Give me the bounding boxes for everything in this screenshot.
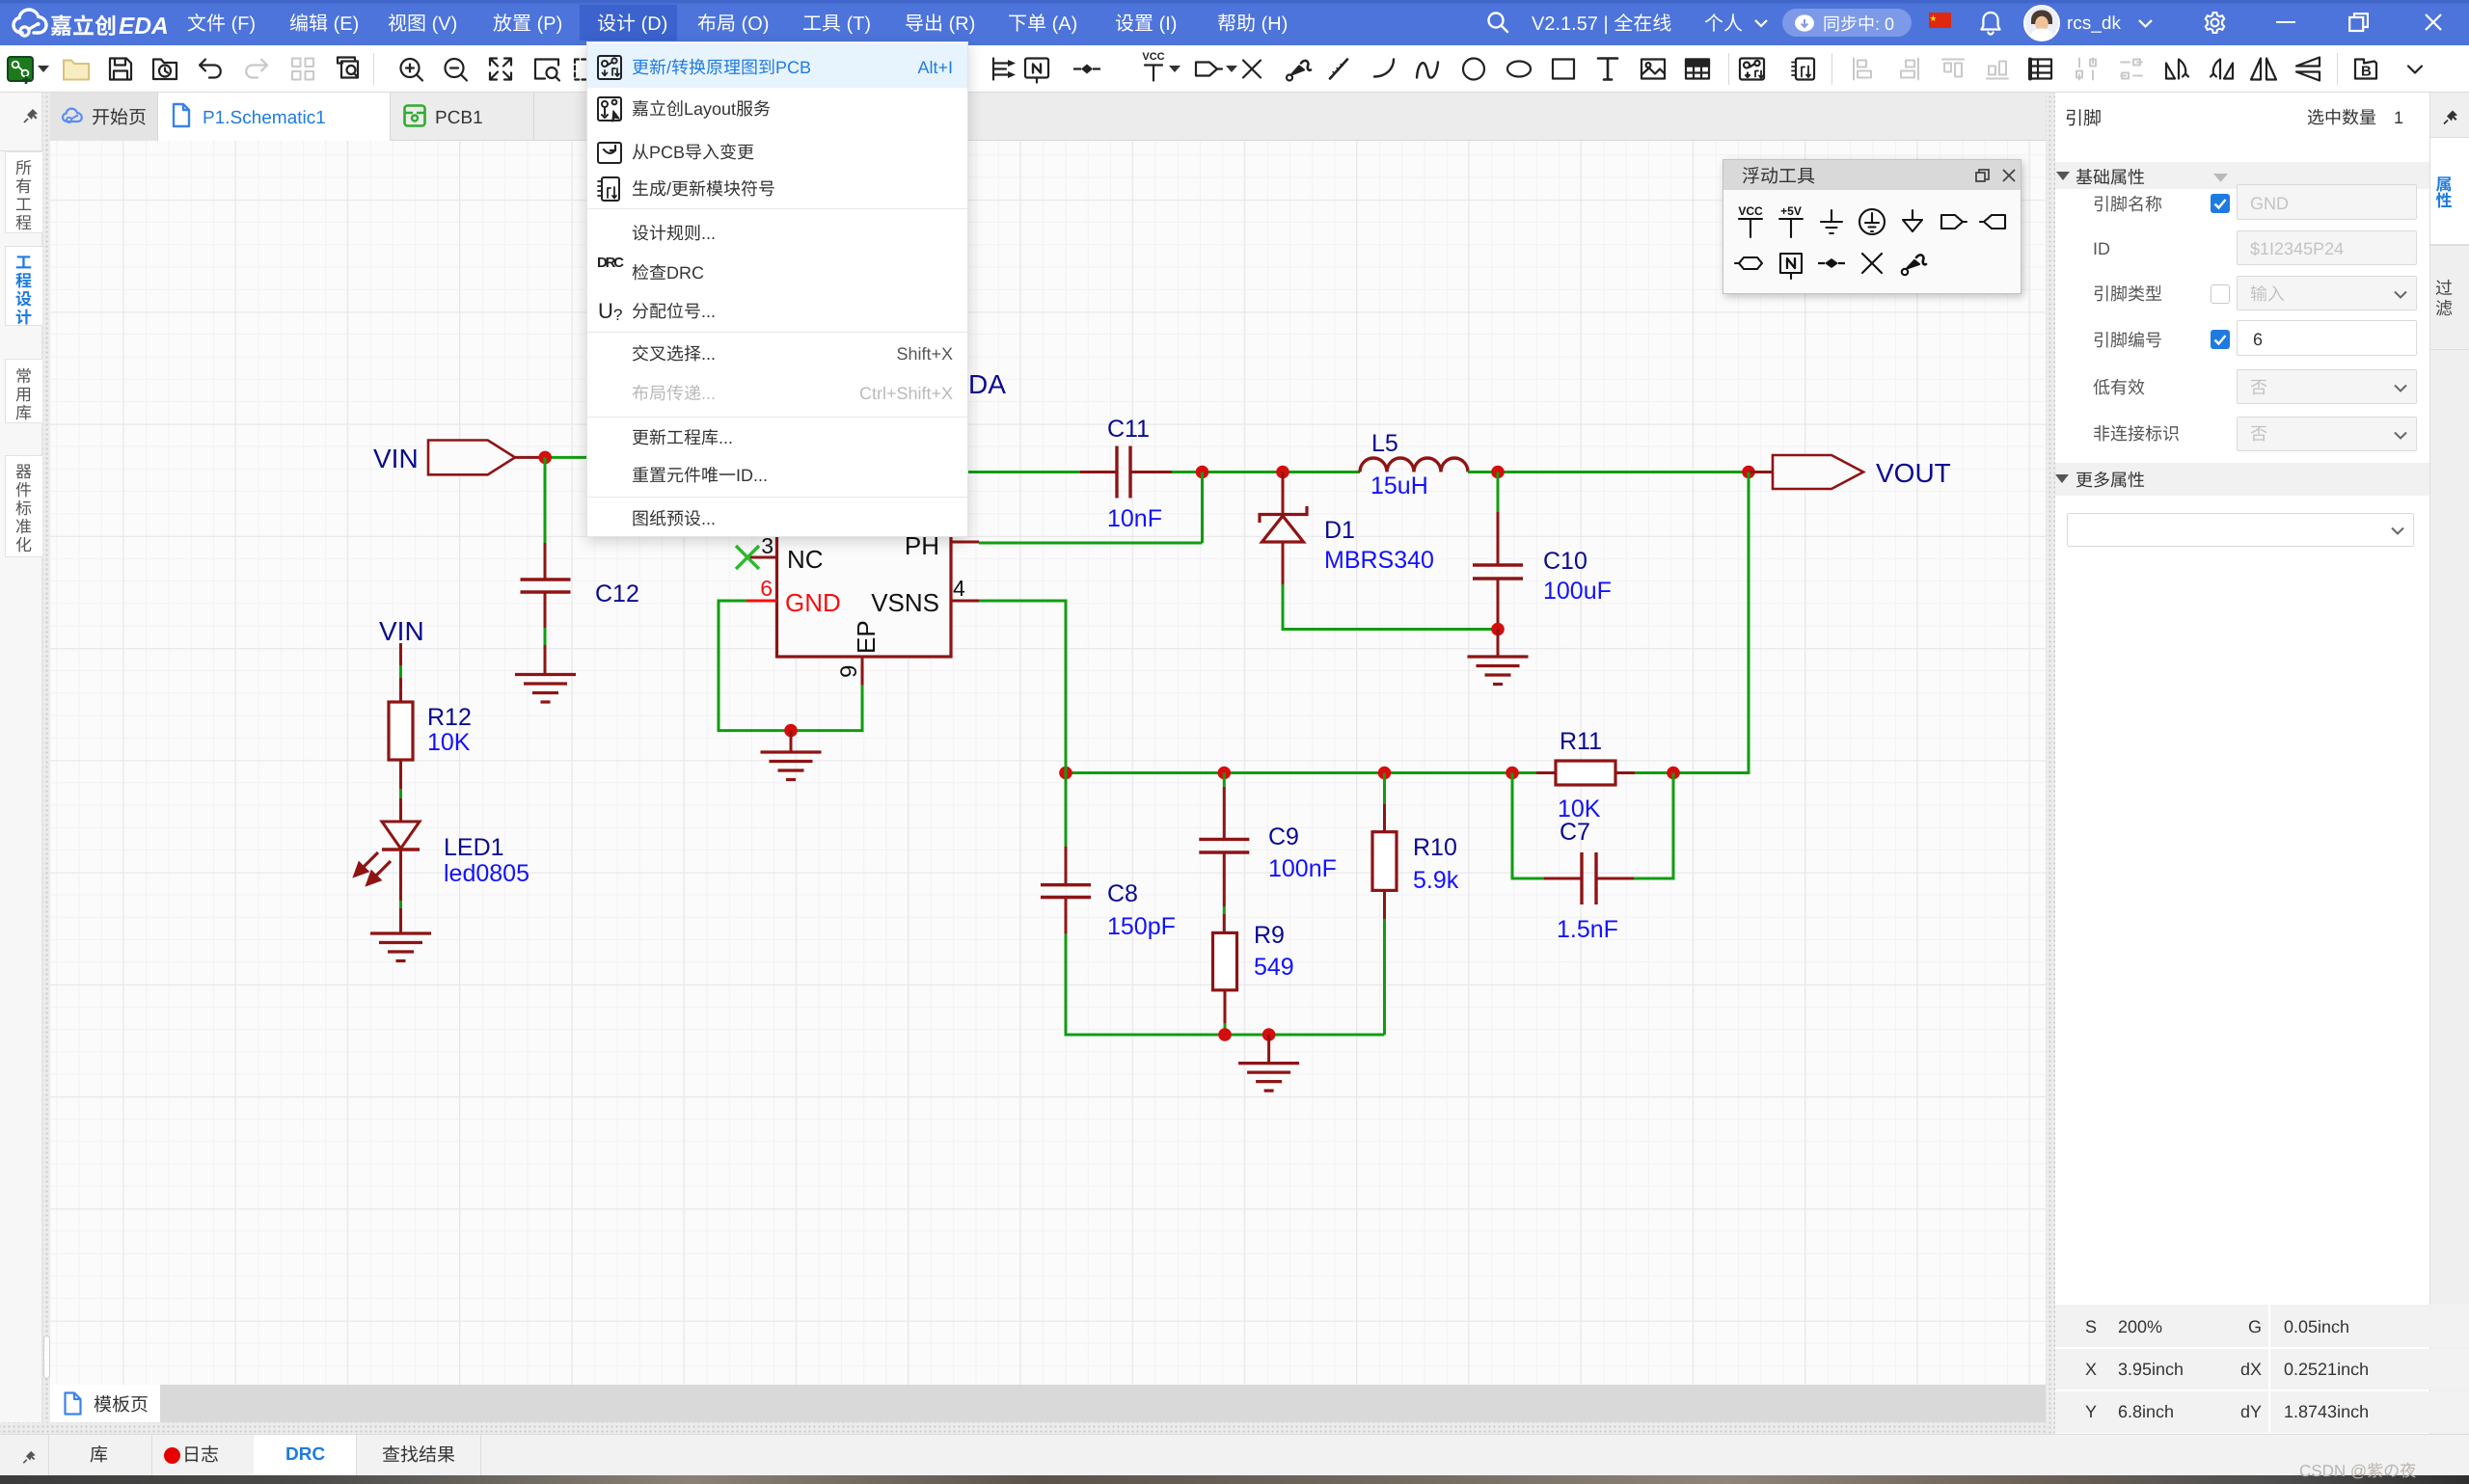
feedback bus wire xyxy=(1066,771,1536,774)
svg-text:DRC: DRC xyxy=(597,255,624,271)
svg-text:L5: L5 xyxy=(1371,430,1398,457)
svg-text:VIN: VIN xyxy=(379,616,424,646)
capacitor C8 branch xyxy=(1065,773,1068,847)
wire VSNS to bus xyxy=(979,601,1066,773)
port VIN xyxy=(428,441,515,475)
svg-text:C9: C9 xyxy=(1268,823,1299,850)
junction PH node xyxy=(1196,466,1209,479)
pin 4 VSNS xyxy=(951,600,979,603)
port VOUT xyxy=(1749,471,1773,473)
junction VOUT xyxy=(1742,466,1755,479)
junction C10 xyxy=(1491,466,1505,479)
ground bottom xyxy=(1238,1062,1299,1065)
svg-text:C10: C10 xyxy=(1543,548,1587,575)
junction VIN xyxy=(538,451,552,465)
bottom bus junctions xyxy=(1218,1028,1232,1041)
pin 6 GND (selected) xyxy=(746,600,777,603)
capacitor C9 xyxy=(1223,773,1226,787)
resistor R9 xyxy=(1213,932,1237,989)
ground under C12 xyxy=(515,673,576,676)
wire VIN down to C12 xyxy=(544,457,547,543)
svg-text:C12: C12 xyxy=(595,580,639,607)
capacitor C7 xyxy=(1512,773,1544,879)
wire C10 ground lead xyxy=(1497,630,1500,658)
svg-text:led0805: led0805 xyxy=(444,860,529,887)
svg-text:1.5nF: 1.5nF xyxy=(1557,916,1618,943)
ground under LED1 xyxy=(370,931,431,934)
svg-text:R9: R9 xyxy=(1254,922,1285,949)
junction EP ground xyxy=(784,724,798,738)
LED LED1 xyxy=(382,822,420,849)
IC body xyxy=(777,444,952,657)
svg-text:10K: 10K xyxy=(427,729,471,756)
wire GND pin to ground loop xyxy=(719,601,862,731)
svg-text:VOUT: VOUT xyxy=(1876,458,1951,488)
svg-text:100uF: 100uF xyxy=(1543,578,1612,605)
resistor R11 xyxy=(1536,771,1556,774)
svg-text:GND: GND xyxy=(785,588,841,617)
svg-text:9: 9 xyxy=(836,665,862,678)
wire LED1 to ground xyxy=(399,850,402,901)
wire EP ground lead xyxy=(790,731,793,752)
svg-text:MBRS340: MBRS340 xyxy=(1324,547,1434,574)
wire L5 to VOUT xyxy=(1468,471,1749,473)
svg-text:LED1: LED1 xyxy=(444,834,504,861)
wire R12 to LED1 xyxy=(399,760,402,789)
svg-text:C11: C11 xyxy=(1107,416,1150,443)
svg-text:5.9k: 5.9k xyxy=(1413,867,1459,894)
svg-text:15uH: 15uH xyxy=(1370,472,1428,499)
pin 9 EP xyxy=(861,657,864,686)
svg-text:EP: EP xyxy=(852,620,881,654)
svg-text:?: ? xyxy=(613,306,622,324)
inductor L5 xyxy=(1360,458,1468,472)
svg-text:4: 4 xyxy=(953,576,965,601)
pin 8 PH xyxy=(951,541,979,544)
svg-text:100nF: 100nF xyxy=(1268,855,1337,882)
svg-text:VSNS: VSNS xyxy=(871,588,939,617)
capacitor C11 xyxy=(1080,471,1117,473)
svg-text:B: B xyxy=(2361,64,2372,80)
svg-text:R12: R12 xyxy=(427,704,472,731)
resistor R10 xyxy=(1383,773,1386,804)
svg-text:VIN: VIN xyxy=(373,444,419,473)
wire VIN to menu xyxy=(545,456,586,459)
svg-text:6: 6 xyxy=(760,576,773,601)
resistor R12 xyxy=(389,702,413,760)
wire VIN net to R12 xyxy=(399,643,402,665)
capacitor C10 xyxy=(1497,472,1500,513)
svg-text:150pF: 150pF xyxy=(1107,913,1176,940)
svg-text:NC: NC xyxy=(787,545,824,574)
pin 3 NC xyxy=(746,556,777,559)
svg-text:D1: D1 xyxy=(1324,517,1355,544)
wire down to PH xyxy=(1201,472,1204,544)
wire ground tap xyxy=(1267,1035,1270,1064)
svg-text:R10: R10 xyxy=(1413,834,1457,861)
svg-text:VCC: VCC xyxy=(1738,204,1763,218)
capacitor C12 xyxy=(544,543,547,580)
svg-text:10nF: 10nF xyxy=(1107,505,1162,532)
ground under IC EP xyxy=(761,750,822,753)
svg-text:DA: DA xyxy=(968,369,1006,399)
diode D1 MBRS340 xyxy=(1282,472,1285,514)
junction bus nodes xyxy=(1059,767,1072,780)
wire VOUT down to feedback rail xyxy=(1673,472,1749,773)
svg-text:549: 549 xyxy=(1254,954,1294,981)
svg-text:R11: R11 xyxy=(1560,728,1602,755)
svg-text:U: U xyxy=(598,299,613,323)
svg-text:C8: C8 xyxy=(1107,880,1138,907)
svg-text:C7: C7 xyxy=(1560,819,1590,846)
junction D1 xyxy=(1276,466,1289,479)
wire C11 to L5 xyxy=(1172,471,1360,473)
junction C10 bottom xyxy=(1491,623,1505,636)
ground under C10 xyxy=(1468,655,1529,658)
svg-text:VCC: VCC xyxy=(1142,51,1164,63)
svg-text:+5V: +5V xyxy=(1780,204,1802,218)
wire menu edge to C11 xyxy=(968,471,1080,473)
